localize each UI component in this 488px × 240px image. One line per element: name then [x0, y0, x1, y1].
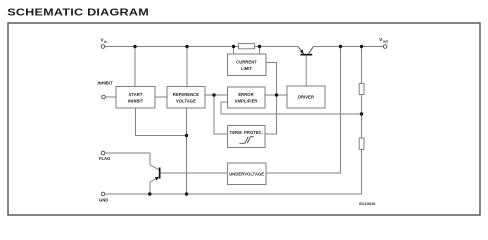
svg-text:START: START — [129, 92, 143, 97]
terminal inhibit — [98, 81, 114, 99]
svg-text:out: out — [383, 40, 389, 44]
node top rail start inhibit — [133, 45, 136, 48]
wire output rail down to undervoltage right — [266, 47, 341, 174]
node start inhibit ground branch — [185, 134, 188, 137]
terminal Vout — [379, 37, 388, 48]
svg-text:REFERENCE: REFERENCE — [173, 92, 199, 97]
wire start inhibit to reference voltage — [155, 96, 167, 98]
wire top rail sense resistor to Q1 emitter — [255, 46, 299, 48]
svg-text:FLAG: FLAG — [99, 156, 110, 161]
block start inhibit — [116, 87, 155, 109]
wire reference voltage to error amplifier — [205, 94, 228, 96]
wire undervoltage left to Q2 base — [160, 172, 227, 174]
wire Q1 base to driver — [305, 55, 307, 86]
wire reference voltage bottom to ground — [186, 108, 188, 194]
wire inhibit input — [105, 96, 116, 98]
resistor divider upper — [359, 84, 364, 95]
block error amplifier — [228, 87, 266, 108]
svg-text:SCHEMATIC DIAGRAM: SCHEMATIC DIAGRAM — [7, 7, 149, 18]
wire current limit sense left — [233, 47, 235, 55]
block driver — [287, 86, 325, 108]
wire node A down to thermal protection left — [214, 95, 228, 134]
svg-text:VOLTAGE: VOLTAGE — [176, 99, 196, 104]
wire divider top — [361, 47, 363, 84]
wire feedback error amplifier to divider — [221, 102, 362, 114]
svg-text:DRIVER: DRIVER — [298, 95, 314, 100]
hysteresis symbol — [239, 137, 253, 144]
node top rail reference — [185, 45, 188, 48]
node B error amplifier output — [275, 93, 278, 96]
terminal flag — [99, 151, 110, 161]
svg-text:ERROR: ERROR — [238, 92, 253, 97]
transistor Q2 flag — [155, 167, 161, 180]
block current limit — [228, 54, 267, 76]
wire divider bottom to ground rail — [105, 150, 362, 195]
block undervoltage — [228, 163, 267, 185]
wire error amplifier output to driver — [265, 94, 287, 96]
terminal Vin — [101, 38, 107, 49]
svg-text:SC13010: SC13010 — [359, 201, 376, 206]
resistor current sense — [239, 44, 255, 49]
wire flag terminal to Q2 collector — [105, 153, 159, 170]
node A reference to error amplifier — [212, 93, 215, 96]
wire reference voltage top — [186, 47, 188, 87]
svg-text:INHIBIT: INHIBIT — [98, 81, 114, 86]
node sense resistor left — [232, 45, 235, 48]
node Q2 emitter ground — [148, 192, 151, 195]
terminal gnd — [99, 192, 108, 202]
node output rail left — [339, 45, 342, 48]
node reference ground — [185, 192, 188, 195]
wire divider middle — [361, 95, 363, 139]
node sense resistor right — [258, 45, 261, 48]
node output rail divider — [360, 45, 363, 48]
wire start inhibit top — [134, 47, 136, 87]
resistor divider lower — [359, 138, 364, 149]
svg-text:in: in — [104, 40, 107, 44]
svg-text:AMPLIFIER: AMPLIFIER — [235, 99, 258, 104]
wire current limit sense right — [259, 47, 261, 55]
transistor Q1 pass — [298, 47, 314, 56]
wire Q2 emitter to ground — [150, 177, 159, 194]
node divider feedback — [360, 112, 363, 115]
wire current limit to node B — [266, 63, 277, 96]
block reference voltage — [167, 87, 205, 109]
wire start inhibit bottom to ground branch — [136, 108, 187, 136]
wire thermal protection right to node B — [265, 95, 277, 134]
svg-text:CURRENT: CURRENT — [236, 60, 257, 65]
svg-text:LIMIT: LIMIT — [241, 66, 253, 71]
block thermal protection — [228, 126, 266, 148]
svg-text:TERM. PROTEC.: TERM. PROTEC. — [230, 130, 263, 135]
svg-text:INHIBIT: INHIBIT — [128, 99, 144, 104]
wire Q1 collector to Vout — [314, 46, 384, 48]
svg-text:GND: GND — [99, 197, 108, 202]
wire top rail Vin to sense resistor — [105, 46, 239, 48]
svg-text:UNDERVOLTAGE: UNDERVOLTAGE — [229, 171, 264, 176]
